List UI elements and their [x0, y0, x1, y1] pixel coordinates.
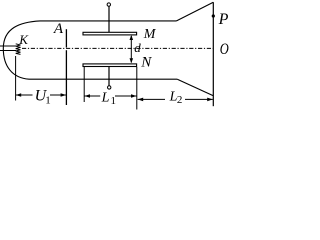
svg-text:P: P — [218, 11, 229, 28]
svg-text:1: 1 — [45, 95, 51, 107]
svg-text:O: O — [220, 41, 230, 59]
svg-text:K: K — [18, 32, 29, 47]
svg-text:A: A — [53, 21, 64, 37]
svg-text:L: L — [101, 91, 110, 106]
svg-text:d: d — [134, 40, 141, 55]
svg-text:N: N — [140, 55, 152, 71]
svg-text:2: 2 — [177, 94, 183, 106]
svg-text:M: M — [143, 27, 157, 42]
svg-text:1: 1 — [111, 95, 117, 107]
